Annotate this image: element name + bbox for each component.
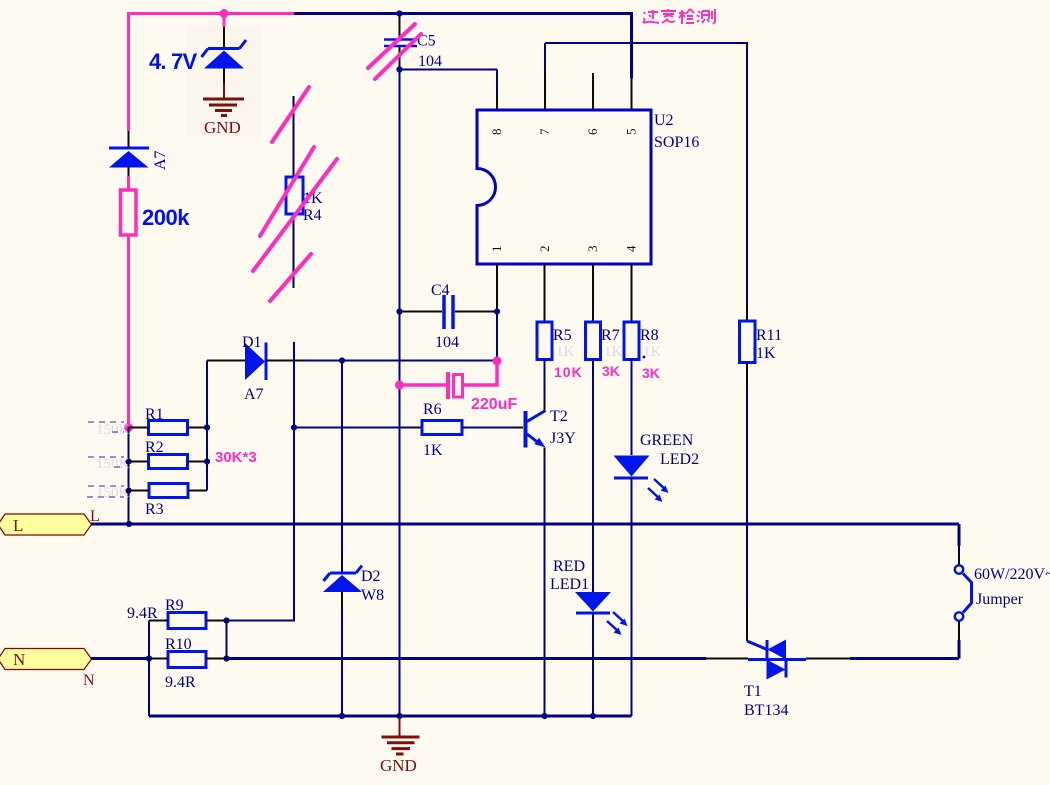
wire R3 left lead black xyxy=(129,490,150,492)
wire bottom rail xyxy=(149,715,632,718)
wire A7 diode top black xyxy=(128,131,130,147)
node junction (593,716) xyxy=(590,713,596,719)
triac T1 xyxy=(747,640,806,680)
wire R11 column top xyxy=(746,43,748,302)
wire to ground dark red xyxy=(223,83,225,98)
node junction (399.5,716) xyxy=(396,713,402,719)
node junction (129,461.5) xyxy=(125,458,131,464)
transistor T2 xyxy=(524,411,546,448)
wire pin6 stub black xyxy=(592,73,594,110)
svg-text:4. 7V: 4. 7V xyxy=(149,49,197,74)
wire R1 right lead black xyxy=(188,427,208,429)
svg-text:RED: RED xyxy=(553,558,585,575)
wire R5 to T2 collector navy xyxy=(544,360,546,401)
svg-text:GND: GND xyxy=(204,118,241,137)
wire magenta 200k down to R1 node xyxy=(127,235,130,428)
svg-text:R2: R2 xyxy=(145,439,164,456)
wire LED2 column to rail xyxy=(631,478,633,716)
ghost dashed box row3 xyxy=(87,486,124,497)
svg-text:GREEN: GREEN xyxy=(640,432,694,449)
svg-text:N: N xyxy=(13,650,25,669)
svg-text:W8: W8 xyxy=(361,587,384,604)
diode D1 xyxy=(207,343,305,381)
svg-text:LED2: LED2 xyxy=(660,451,699,468)
svg-text:1K: 1K xyxy=(643,344,662,360)
wire GND column x400 xyxy=(399,70,401,717)
wire R9 right lead black xyxy=(206,620,227,622)
resistor R10 xyxy=(168,652,206,668)
wire pin7 column xyxy=(544,43,546,72)
node junction (399.5,13.5) xyxy=(396,10,402,16)
hand stroke magenta near R4 s4 xyxy=(270,254,311,301)
wire pin4 stub black xyxy=(631,264,633,322)
svg-text:R4: R4 xyxy=(303,207,322,224)
wire N line middle xyxy=(227,657,707,660)
label zero crossing detection CJK xyxy=(643,9,715,24)
svg-text:Jumper: Jumper xyxy=(976,591,1024,608)
resistor R11 xyxy=(740,321,756,363)
wire H3 C5 to pin8 xyxy=(400,69,498,71)
node junction (207,461.5) xyxy=(204,458,210,464)
wire zener bottom black xyxy=(223,69,225,84)
node junction (226.5,658.5) xyxy=(223,655,229,661)
svg-text:150K: 150K xyxy=(96,422,130,438)
wire T2 base stub black xyxy=(516,427,523,429)
wire pin2 stub black xyxy=(544,264,546,322)
hand stroke magenta near R4 s1 xyxy=(272,87,309,142)
wire R4 column bottom black xyxy=(293,214,295,288)
wire D2 bottom black xyxy=(341,592,343,610)
node junction (294,427.5) xyxy=(291,424,297,430)
op-amp U2 SOP16 body xyxy=(477,110,651,264)
capacitor C5 xyxy=(384,40,417,47)
wire T2 collector stub black xyxy=(544,400,546,411)
wire R2 right lead black xyxy=(188,461,208,463)
faded patch behind zener area xyxy=(186,25,262,137)
node junction (342,716) xyxy=(339,713,345,719)
wire jumper bottom stub black xyxy=(958,622,960,641)
node junction (544.5,716) xyxy=(541,713,547,719)
wire left vertical R1R2R3 navy xyxy=(128,428,130,525)
diode A7 left xyxy=(109,148,149,168)
node junction (130,524) xyxy=(126,521,132,527)
node magenta junction (400,385) xyxy=(395,381,404,390)
resistor R8 xyxy=(624,322,639,360)
svg-text:L: L xyxy=(13,516,23,535)
wire N line left xyxy=(91,657,149,660)
svg-text:5: 5 xyxy=(624,129,639,136)
node magenta junction (497,361) xyxy=(493,357,502,366)
node junction (342,360.5) xyxy=(339,357,345,363)
node junction (207,427.5) xyxy=(204,424,210,430)
node junction (226.5,620.5) xyxy=(223,617,229,623)
wire A7 bottom black xyxy=(128,168,130,177)
wire R2 left lead black xyxy=(129,461,149,463)
svg-text:D1: D1 xyxy=(242,334,262,351)
LED red LED1 xyxy=(575,592,628,635)
wire H2 pin7 to R11 xyxy=(545,42,748,44)
svg-text:R1: R1 xyxy=(145,406,164,423)
svg-text:LED1: LED1 xyxy=(550,576,589,593)
node junction (399.5,311.5) xyxy=(396,308,402,314)
svg-text:3K: 3K xyxy=(602,363,620,379)
svg-text:R6: R6 xyxy=(423,401,442,418)
wire R9 left down navy xyxy=(148,621,150,717)
svg-text:1K: 1K xyxy=(756,345,776,362)
wire R7 column down to LED1 xyxy=(592,360,594,593)
port N xyxy=(0,649,92,670)
resistor R1 xyxy=(149,421,188,435)
wire right vertical D1 to R3 xyxy=(206,361,208,491)
svg-text:R8: R8 xyxy=(640,327,659,344)
svg-text:3: 3 xyxy=(585,246,600,253)
svg-text:1K: 1K xyxy=(556,344,575,360)
svg-text:60W/220V~: 60W/220V~ xyxy=(974,566,1050,583)
jumper 60W/220V xyxy=(955,565,972,620)
wire top H1 navy segment xyxy=(294,12,633,15)
wire jumper column top navy xyxy=(958,524,961,546)
wire GND stub dark red bottom xyxy=(399,717,401,736)
node junction (399.5,69.5) xyxy=(396,66,402,72)
svg-text:104: 104 xyxy=(418,53,442,70)
wire R9 left lead black xyxy=(149,620,168,622)
svg-text:220uF: 220uF xyxy=(471,396,517,413)
svg-text:GND: GND xyxy=(380,756,417,775)
svg-text:A7: A7 xyxy=(244,386,264,403)
wire C5 top stub black xyxy=(399,15,401,39)
wire R10 right lead black xyxy=(206,658,227,660)
svg-text:30K*3: 30K*3 xyxy=(215,449,257,466)
ground symbol bottom GND xyxy=(382,737,420,754)
hand stroke magenta near R4 s2 xyxy=(260,147,314,236)
svg-text:N: N xyxy=(83,672,95,689)
wire magenta between A7 and 200k xyxy=(127,176,130,190)
svg-text:150K: 150K xyxy=(96,456,130,472)
wire R3 right lead black xyxy=(188,490,207,492)
wire R10 left lead black xyxy=(149,658,168,660)
svg-text:A7: A7 xyxy=(152,150,169,170)
svg-text:R3: R3 xyxy=(145,501,164,518)
svg-text:R5: R5 xyxy=(553,327,572,344)
svg-text:R11: R11 xyxy=(756,327,782,344)
svg-text:J3Y: J3Y xyxy=(550,430,576,447)
wire N line right xyxy=(850,657,959,660)
ghost dashed box row1 xyxy=(88,422,124,432)
resistor R3 xyxy=(149,484,188,498)
wire C5 bottom stub xyxy=(399,47,401,70)
wire pin8 stub black xyxy=(496,95,498,110)
wire R11 column bottom navy xyxy=(746,363,748,391)
zener diode D2 xyxy=(323,566,362,593)
node magenta junction (224,13.5) xyxy=(220,9,229,18)
wire T1 gate black xyxy=(746,602,748,641)
node junction (129,490.5) xyxy=(125,487,131,493)
wire D1 output navy xyxy=(305,360,497,362)
LED green LED2 xyxy=(614,456,669,503)
wire T2 emitter column to rail xyxy=(544,458,546,716)
capacitor 220uF electrolytic xyxy=(400,361,497,399)
wire R9R10 right vertical xyxy=(226,621,228,659)
resistor R4 xyxy=(286,177,303,214)
wire pin5 stub black xyxy=(631,78,633,110)
resistor R5 xyxy=(537,322,552,360)
svg-text:C4: C4 xyxy=(431,282,450,299)
wire D2 top black xyxy=(341,556,343,572)
svg-text:2: 2 xyxy=(537,246,552,253)
wire jumper top stub black xyxy=(958,546,960,565)
wire N line black near T1 right xyxy=(806,658,850,660)
wire C4 right lead black xyxy=(455,311,497,313)
ghost dashed box row2 xyxy=(88,457,124,467)
svg-text:R7: R7 xyxy=(601,327,620,344)
resistor R7 xyxy=(586,322,601,360)
svg-text:9.4R: 9.4R xyxy=(165,674,196,691)
wire pin1 column to D1 line xyxy=(496,312,498,362)
wire T2 emitter stub black xyxy=(544,448,546,459)
hand stroke magenta over C5 b xyxy=(375,34,421,79)
wire jumper column bottom navy xyxy=(958,640,961,659)
svg-text:D2: D2 xyxy=(361,568,381,585)
wire C4 left lead black xyxy=(400,311,443,313)
wire R6 row navy xyxy=(294,427,412,429)
faded patch behind A7 label xyxy=(96,140,186,176)
svg-text:U2: U2 xyxy=(654,112,674,129)
svg-text:T2: T2 xyxy=(550,408,568,425)
ground symbol top GND xyxy=(203,99,244,116)
wire pin1 stub black xyxy=(496,264,498,312)
svg-text:4: 4 xyxy=(624,245,639,252)
wire D2 column to rail xyxy=(341,610,343,716)
wire N line black near T1 left xyxy=(706,658,748,660)
port L xyxy=(0,514,92,535)
svg-text:BT134: BT134 xyxy=(744,702,788,719)
wire pin5 column upper xyxy=(630,12,633,78)
svg-text:6: 6 xyxy=(585,128,600,135)
svg-text:10K: 10K xyxy=(554,364,583,380)
capacitor C4 xyxy=(444,295,453,329)
stray period after R8 xyxy=(643,356,646,359)
wire left column magenta upper xyxy=(127,12,130,131)
node junction (497,311.5) xyxy=(494,308,500,314)
resistor R9 xyxy=(168,613,206,629)
wire zener top black xyxy=(223,27,225,48)
wire D2 column from D1 line xyxy=(341,361,343,557)
svg-text:1K: 1K xyxy=(604,344,623,360)
svg-text:L: L xyxy=(90,508,100,525)
wire L line xyxy=(91,523,959,526)
wire R9 row navy to x294 xyxy=(227,620,296,622)
svg-text:T1: T1 xyxy=(744,683,762,700)
svg-text:3K: 3K xyxy=(642,365,660,381)
wire R6 right lead navy xyxy=(462,427,516,429)
svg-text:9.4R: 9.4R xyxy=(127,605,158,622)
wire top H1 magenta segment xyxy=(127,12,294,15)
wire pin3 stub black xyxy=(592,264,594,322)
resistor R2 xyxy=(149,455,188,469)
hand stroke magenta over C5 a xyxy=(368,24,415,68)
wire R6 left lead black xyxy=(412,427,422,429)
pink tick artifact lower-left of R4 strokes xyxy=(0,0,1,1)
wire R4 branch column x294 xyxy=(293,342,295,621)
wire LED1 column to rail xyxy=(592,613,594,716)
wire R4 column top black xyxy=(293,96,295,177)
svg-text:8: 8 xyxy=(489,129,504,136)
node magenta junction (129,427.5) xyxy=(124,423,133,432)
wire R8 column down to LED2 xyxy=(631,360,633,456)
svg-text:104: 104 xyxy=(435,334,459,351)
resistor 200k xyxy=(121,190,137,235)
zener diode 4.7V stub magenta xyxy=(223,14,226,28)
svg-text:1K: 1K xyxy=(423,442,443,459)
wire pin7 stub black xyxy=(544,72,546,110)
svg-text:200k: 200k xyxy=(142,205,190,230)
wire R1 left lead black xyxy=(129,427,149,429)
svg-text:SOP16: SOP16 xyxy=(654,134,699,151)
hand stroke magenta near R4 s3 xyxy=(253,159,337,271)
svg-text:1: 1 xyxy=(489,246,504,253)
wire pin8 column xyxy=(496,70,498,96)
svg-text:150K: 150K xyxy=(96,485,130,501)
zener diode 4.7V xyxy=(202,40,247,69)
svg-text:7: 7 xyxy=(537,128,552,135)
node junction (149,658.5) xyxy=(146,655,152,661)
resistor R6 xyxy=(422,421,462,435)
